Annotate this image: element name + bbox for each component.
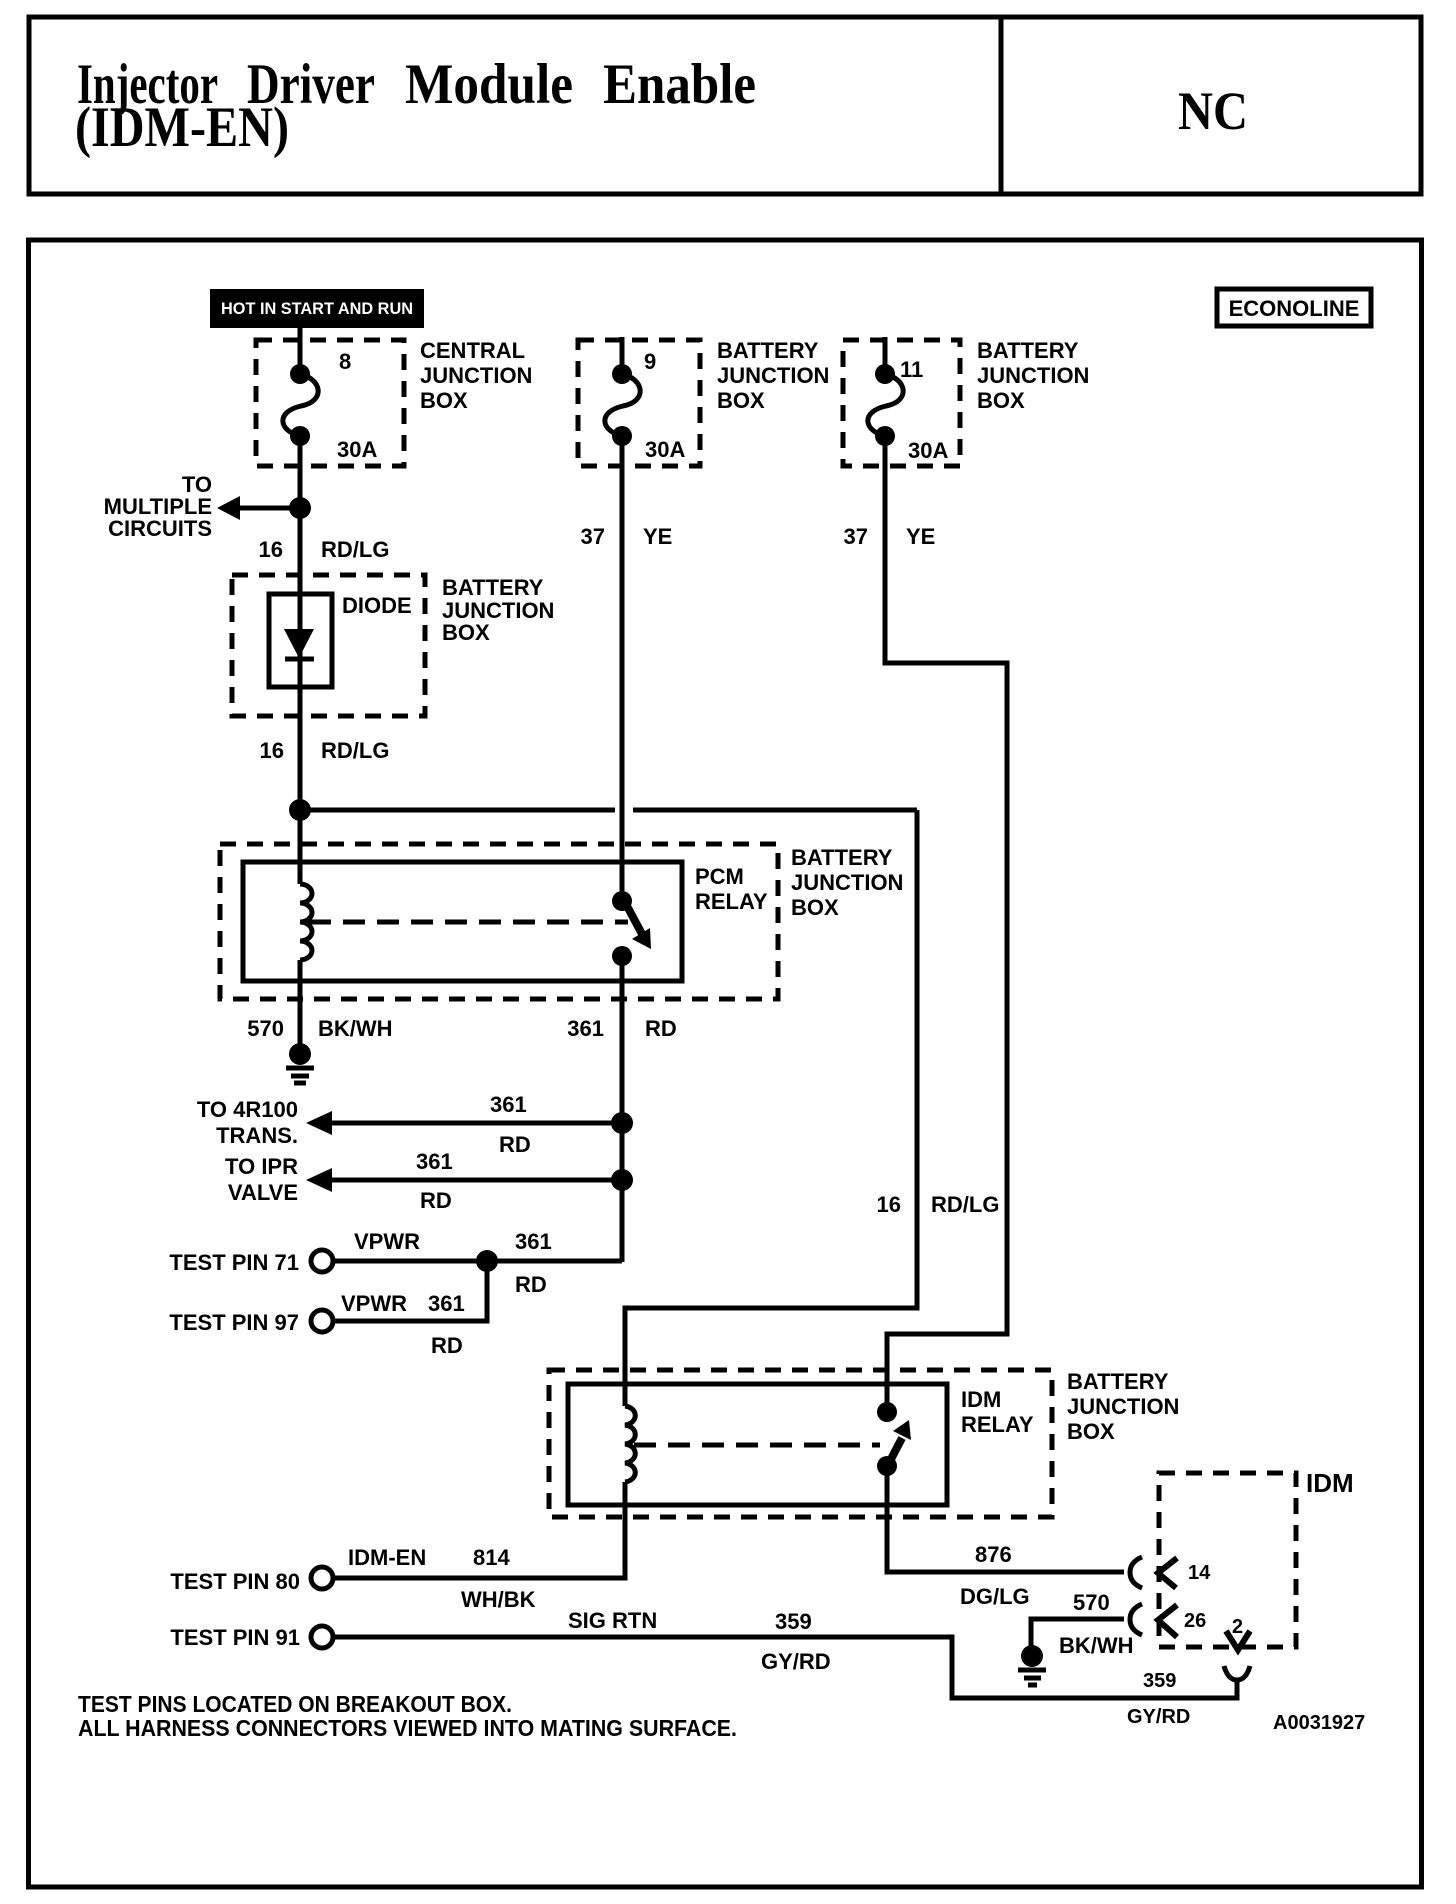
svg-text:BK/WH: BK/WH (1059, 1633, 1134, 1658)
svg-text:570: 570 (247, 1016, 284, 1041)
svg-text:GY/RD: GY/RD (1127, 1706, 1190, 1728)
svg-text:GY/RD: GY/RD (761, 1649, 831, 1674)
wire label 359 GY/RD (761, 1609, 831, 1674)
svg-text:361: 361 (416, 1149, 453, 1174)
connector pin 2 (1224, 1616, 1250, 1680)
svg-text:BOX: BOX (791, 895, 839, 920)
svg-text:CENTRAL: CENTRAL (420, 338, 525, 363)
svg-text:359: 359 (1143, 1670, 1176, 1692)
svg-text:ECONOLINE: ECONOLINE (1229, 296, 1360, 321)
svg-text:WH/BK: WH/BK (461, 1587, 536, 1612)
svg-text:JUNCTION: JUNCTION (717, 363, 829, 388)
PCM relay outline (243, 862, 682, 981)
svg-text:PCM: PCM (695, 864, 744, 889)
wire label 570 BK/WH (pin 26) (1059, 1590, 1134, 1658)
PCM relay battery junction box (220, 844, 778, 999)
fuse 9 symbol (605, 337, 640, 446)
svg-text:RELAY: RELAY (961, 1412, 1034, 1437)
svg-text:ALL HARNESS CONNECTORS VIEWED: ALL HARNESS CONNECTORS VIEWED INTO MATIN… (78, 1715, 737, 1741)
svg-text:9: 9 (644, 349, 656, 374)
svg-text:TO IPR: TO IPR (225, 1154, 298, 1179)
svg-text:BOX: BOX (717, 388, 765, 413)
PCM relay switch (612, 891, 651, 966)
PCM relay control dashed link (309, 920, 628, 925)
title block frame (29, 17, 1421, 194)
wire label 361 RD (4R100) (490, 1092, 531, 1157)
svg-text:TRANS.: TRANS. (216, 1123, 298, 1148)
node: test pin junction (476, 1250, 498, 1272)
svg-text:YE: YE (643, 524, 672, 549)
svg-text:HOT IN START AND RUN: HOT IN START AND RUN (221, 299, 413, 318)
wire banner to fuse 8 (298, 328, 303, 369)
label BATTERY JUNCTION BOX (PCM relay) (791, 845, 903, 920)
svg-text:11: 11 (900, 357, 923, 382)
IDM module box (1159, 1473, 1296, 1647)
node: 4R100 tap (611, 1112, 633, 1134)
PCM relay coil (300, 884, 312, 960)
svg-text:BATTERY: BATTERY (717, 338, 819, 363)
svg-text:30A: 30A (337, 437, 377, 462)
ground G2 (1018, 1645, 1046, 1685)
svg-text:RD/LG: RD/LG (321, 537, 389, 562)
wire label 814 WH/BK (461, 1545, 536, 1612)
svg-text:VALVE: VALVE (228, 1180, 298, 1205)
svg-text:BATTERY: BATTERY (1067, 1369, 1169, 1394)
label BATTERY JUNCTION BOX (fuse 11) (977, 338, 1089, 413)
svg-text:TEST PIN 97: TEST PIN 97 (169, 1310, 299, 1335)
wire label 37 YE (fuse 11) (844, 524, 936, 549)
fuse 8 box (central junction box) (256, 340, 404, 466)
svg-text:RD/LG: RD/LG (321, 738, 389, 763)
test pin 80 (170, 1505, 625, 1594)
test pin 71 (169, 1250, 487, 1275)
svg-text:JUNCTION: JUNCTION (420, 363, 532, 388)
svg-text:JUNCTION: JUNCTION (977, 363, 1089, 388)
svg-text:14: 14 (1188, 1562, 1211, 1584)
svg-text:TEST PIN 71: TEST PIN 71 (169, 1250, 299, 1275)
svg-text:RD: RD (420, 1188, 452, 1213)
svg-text:JUNCTION: JUNCTION (791, 870, 903, 895)
svg-text:YE: YE (906, 524, 935, 549)
IDM relay outline (568, 1384, 947, 1505)
label TO 4R100 TRANS. (197, 1097, 298, 1148)
svg-text:361: 361 (567, 1016, 604, 1041)
IDM relay coil (625, 1406, 635, 1482)
diode D1 (284, 629, 314, 659)
IDM relay control dashed link (634, 1443, 880, 1448)
svg-text:TO 4R100: TO 4R100 (197, 1097, 298, 1122)
node: junction above PCM relay (289, 799, 311, 821)
svg-text:TEST PINS LOCATED ON BREAKOUT: TEST PINS LOCATED ON BREAKOUT BOX. (78, 1691, 512, 1717)
wire label 361 RD (71) (515, 1229, 552, 1297)
econoline label (1217, 289, 1371, 326)
notes (78, 1691, 737, 1741)
wire label 359 GY/RD (IDM) (1127, 1670, 1190, 1728)
svg-text:16: 16 (260, 738, 284, 763)
IDM relay battery junction box (549, 1370, 1052, 1517)
wire label 570 BK/WH (247, 1016, 392, 1041)
svg-text:361: 361 (490, 1092, 527, 1117)
connector pin 26 (1130, 1604, 1206, 1637)
wire label 16 RD/LG (lower) (260, 738, 390, 763)
wire junction to 361 column (487, 1259, 622, 1264)
diode module outline (269, 594, 332, 687)
svg-text:CIRCUITS: CIRCUITS (108, 516, 212, 541)
label BATTERY JUNCTION BOX (diode) (442, 575, 554, 645)
wire through diode (298, 575, 303, 810)
wire label 361 RD (IPR) (416, 1149, 453, 1213)
svg-text:570: 570 (1073, 1590, 1110, 1615)
svg-text:BOX: BOX (977, 388, 1025, 413)
wire bus corner down right side (625, 810, 917, 1406)
svg-text:26: 26 (1184, 1610, 1206, 1632)
svg-text:30A: 30A (645, 437, 685, 462)
svg-text:BK/WH: BK/WH (318, 1016, 393, 1041)
svg-text:TEST PIN 91: TEST PIN 91 (170, 1625, 300, 1650)
ground G1 (286, 1043, 314, 1083)
wire label 16 RD/LG (right) (877, 1192, 1000, 1217)
label IDM RELAY (961, 1387, 1034, 1437)
svg-text:BATTERY: BATTERY (442, 575, 544, 600)
svg-text:361: 361 (515, 1229, 552, 1254)
svg-text:30A: 30A (908, 438, 948, 463)
wire PCM coil to ground (298, 981, 303, 1045)
test pin 97 (169, 1261, 487, 1335)
arrow to IPR valve (306, 1168, 622, 1192)
IDM relay switch (877, 1402, 911, 1476)
wire fuse 11 to IDM relay switch (885, 436, 1007, 1412)
svg-text:BOX: BOX (442, 620, 490, 645)
svg-text:RD: RD (499, 1132, 531, 1157)
fuse 8 symbol (283, 364, 318, 446)
svg-text:RD: RD (431, 1333, 463, 1358)
wire PCM switch down (620, 956, 625, 1262)
wire bus to right column (with crossover gap) (300, 808, 917, 813)
svg-text:IDM: IDM (961, 1387, 1001, 1412)
svg-text:DG/LG: DG/LG (960, 1584, 1030, 1609)
svg-text:RD/LG: RD/LG (931, 1192, 999, 1217)
svg-text:VPWR: VPWR (341, 1291, 407, 1316)
hot in start and run banner (210, 289, 424, 328)
svg-text:A0031927: A0031927 (1273, 1712, 1365, 1734)
wire label 16 RD/LG (upper) (259, 537, 390, 562)
svg-text:BATTERY: BATTERY (977, 338, 1079, 363)
svg-text:361: 361 (428, 1291, 465, 1316)
svg-text:JUNCTION: JUNCTION (1067, 1394, 1179, 1419)
fuse 9 box (battery junction box) (578, 340, 700, 466)
label BATTERY JUNCTION BOX (IDM relay) (1067, 1369, 1179, 1444)
svg-text:BATTERY: BATTERY (791, 845, 893, 870)
label TO IPR VALVE (225, 1154, 298, 1205)
fuse 11 symbol (868, 337, 903, 446)
svg-text:BOX: BOX (1067, 1419, 1115, 1444)
svg-text:DIODE: DIODE (342, 593, 412, 618)
wire fuse 8 to junction (298, 436, 303, 575)
svg-text:RD: RD (645, 1016, 677, 1041)
test pin 91 (170, 1625, 1237, 1698)
connector pin 14 (1130, 1557, 1211, 1588)
PCM relay coil wire (298, 810, 303, 884)
node: IPR tap (611, 1169, 633, 1191)
wire label 37 YE (fuse 9) (581, 524, 673, 549)
svg-text:16: 16 (259, 537, 283, 562)
label BATTERY JUNCTION BOX (fuse 9) (717, 338, 829, 413)
svg-text:359: 359 (775, 1609, 812, 1634)
node: multiple circuits tap (289, 497, 311, 519)
wire fuse 9 to PCM relay switch (620, 436, 625, 901)
svg-text:IDM-EN: IDM-EN (348, 1545, 426, 1570)
label CENTRAL JUNCTION BOX (420, 338, 532, 413)
wire label 876 DG/LG (960, 1542, 1030, 1609)
svg-text:16: 16 (877, 1192, 901, 1217)
svg-text:37: 37 (844, 524, 868, 549)
svg-text:IDM: IDM (1306, 1468, 1354, 1498)
svg-text:2: 2 (1232, 1616, 1243, 1638)
svg-text:8: 8 (339, 349, 351, 374)
svg-text:TEST PIN 80: TEST PIN 80 (170, 1569, 300, 1594)
svg-text:Enable: Enable (603, 53, 756, 116)
svg-text:NC: NC (1178, 81, 1248, 141)
svg-text:RD: RD (515, 1272, 547, 1297)
wire IDM relay switch to pin 14 (887, 1466, 1124, 1572)
diode battery junction box (232, 575, 425, 716)
label PCM RELAY (695, 864, 768, 914)
svg-text:RELAY: RELAY (695, 889, 768, 914)
svg-text:VPWR: VPWR (354, 1229, 420, 1254)
svg-text:BOX: BOX (420, 388, 468, 413)
svg-text:(IDM-EN): (IDM-EN) (75, 96, 289, 159)
arrow to multiple circuits (217, 496, 300, 520)
fuse 11 box (battery junction box) (843, 340, 960, 466)
svg-text:37: 37 (581, 524, 605, 549)
wire label 361 RD (567, 1016, 677, 1041)
svg-text:876: 876 (975, 1542, 1012, 1567)
svg-text:SIG RTN: SIG RTN (568, 1608, 657, 1633)
svg-text:Module: Module (405, 53, 573, 116)
label TO MULTIPLE CIRCUITS (104, 472, 212, 541)
svg-text:814: 814 (473, 1545, 510, 1570)
arrow to 4R100 trans (306, 1111, 622, 1135)
wire pin 26 to ground (1031, 1619, 1124, 1646)
